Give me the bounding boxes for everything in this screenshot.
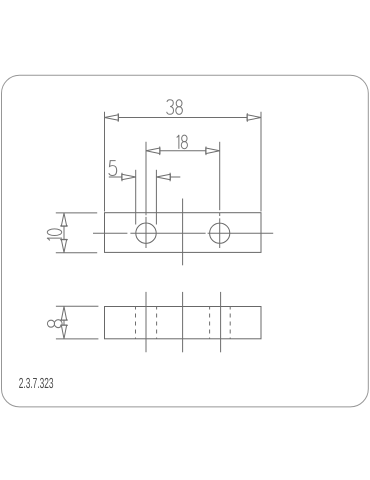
horizontal centerline (93, 232, 273, 234)
dimension 38 right arrow (247, 113, 261, 122)
border frame (2, 75, 369, 407)
dimension 5 right extension line (155, 170, 157, 225)
dimension 38 right extension line (260, 112, 262, 212)
dimension 5 left arrow (122, 173, 136, 182)
dimension 38 left extension line (104, 112, 106, 212)
dimension 8 text (47, 320, 62, 328)
bottom view hole 2 left hidden line (209, 307, 211, 339)
bottom view hole 1 centerline (145, 292, 147, 352)
dimension 18 left arrow (146, 147, 160, 156)
bottom view center axis (182, 292, 184, 352)
bottom view hole 1 left hidden line (135, 307, 137, 339)
bottom view outline (105, 307, 262, 339)
dimension 18 text (177, 135, 188, 149)
hole 2 (210, 223, 230, 243)
part center axis (182, 199, 184, 266)
dimension 10 top extension line (56, 212, 97, 214)
dimension 38 line (105, 117, 262, 119)
dimension 10 up arrow (60, 213, 68, 226)
dimension 5 right arrow (156, 173, 170, 182)
dimension 38 text (167, 100, 183, 115)
dimension 10 line (63, 213, 65, 253)
front view outline (105, 213, 262, 253)
dimension 5 left line (109, 176, 136, 178)
dimension 8 down arrow (60, 325, 68, 339)
dimension 8 bottom extension line (56, 338, 99, 340)
dimension 10 text (47, 229, 62, 241)
hole 1 (136, 223, 156, 243)
hole 2 vertical centerline (219, 142, 221, 248)
dimension 10 bottom extension line (56, 252, 97, 254)
hole 1 vertical centerline (145, 142, 147, 248)
bottom view hole 2 centerline (220, 292, 222, 352)
svg-text:2.3.7.323: 2.3.7.323 (19, 376, 54, 392)
bottom view hole 2 right hidden line (229, 307, 231, 339)
dimension 8 up arrow (60, 307, 68, 321)
dimension 18 right arrow (206, 147, 220, 156)
dimension 18 line (146, 150, 220, 152)
dimension 5 left extension line (135, 170, 137, 225)
dimension 8 top extension line (56, 305, 99, 307)
dimension 38 left arrow (105, 113, 119, 122)
dimension 5 text (109, 161, 117, 176)
dimension 8 line (63, 307, 65, 339)
dimension 10 down arrow (60, 239, 68, 252)
bottom view hole 1 right hidden line (156, 307, 158, 339)
dimension 5 right line (156, 176, 180, 178)
